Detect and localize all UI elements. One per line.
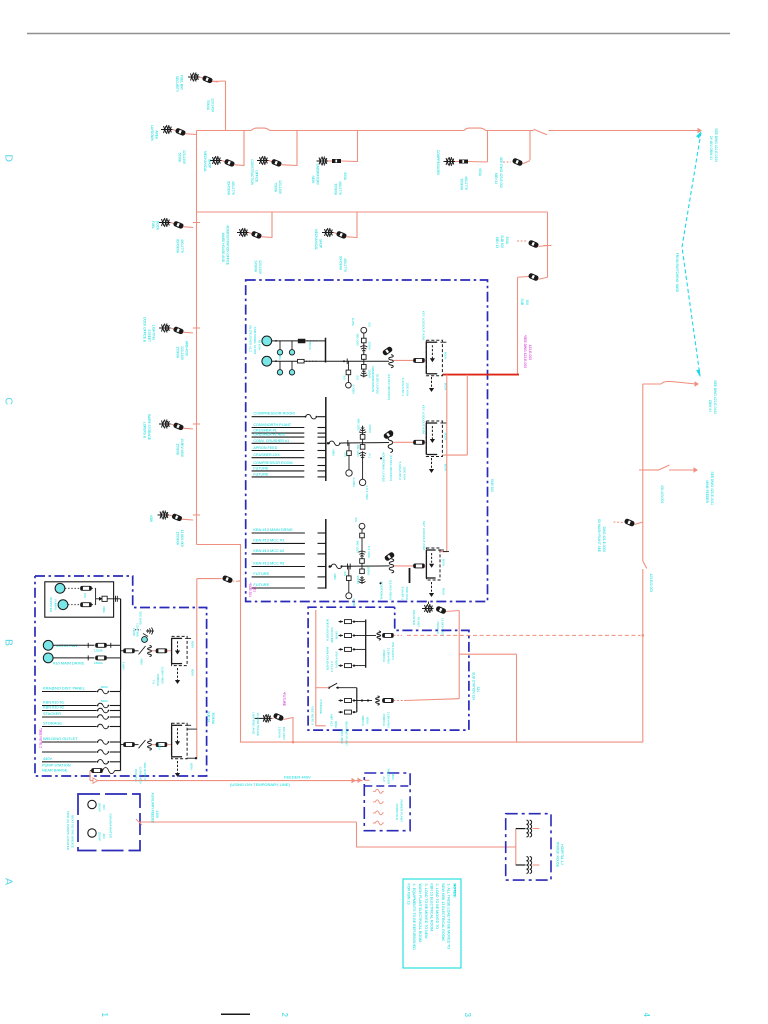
svg-text:600A: 600A <box>101 699 108 703</box>
svg-text:WASH PLANT ELECTRICAL ROOM.: WASH PLANT ELECTRICAL ROOM. <box>418 884 422 943</box>
svg-text:NOTES:: NOTES: <box>453 884 457 898</box>
svg-text:LOKERS &: LOKERS & <box>143 422 147 439</box>
svg-text:300KVA: 300KVA <box>361 715 365 726</box>
svg-text:S/S: S/S <box>368 322 372 327</box>
svg-text:480-277V: 480-277V <box>180 239 184 254</box>
svg-text:C: C <box>3 397 15 405</box>
svg-text:B: B <box>3 639 15 646</box>
svg-text:1500KVA: 1500KVA <box>176 532 180 546</box>
svg-text:AREA: AREA <box>155 130 159 140</box>
svg-text:120-240V: 120-240V <box>182 150 186 165</box>
svg-text:SUB: SUB <box>520 298 524 305</box>
svg-text:423-E-003: 423-E-003 <box>528 345 532 361</box>
svg-text:SEE DWG 421-E-0100: SEE DWG 421-E-0100 <box>713 380 717 414</box>
svg-text:*SUB 301: *SUB 301 <box>248 583 252 598</box>
svg-text:MECHANICAL: MECHANICAL <box>314 229 318 250</box>
svg-text:PLANT: PLANT <box>417 617 421 627</box>
svg-text:NEW: NEW <box>311 176 315 183</box>
svg-text:NEAR BARGE: NEAR BARGE <box>42 768 68 773</box>
svg-text:2# 4KV OBW #1: 2# 4KV OBW #1 <box>709 136 713 160</box>
svg-text:CONV. CRUSHER #1: CONV. CRUSHER #1 <box>253 439 289 443</box>
svg-text:120-240V: 120-240V <box>180 346 184 361</box>
svg-text:120-240V: 120-240V <box>258 260 262 275</box>
svg-text:(PB-4 600V): (PB-4 600V) <box>335 651 339 668</box>
svg-text:30/45KVA: 30/45KVA <box>176 239 180 254</box>
svg-text:300KVA: 300KVA <box>334 184 338 196</box>
svg-text:MAIN CRUSHER: MAIN CRUSHER <box>326 647 330 671</box>
svg-text:1200A: 1200A <box>94 649 103 653</box>
svg-text:ADMINISTRATION OFFICE: ADMINISTRATION OFFICE <box>226 225 230 265</box>
svg-text:1500 KVA: 1500 KVA <box>403 466 407 481</box>
svg-text:S/S: S/S <box>356 375 360 380</box>
svg-text:440V: 440V <box>391 773 395 780</box>
svg-text:KRA@NO DIST. PANEL: KRA@NO DIST. PANEL <box>43 686 86 691</box>
svg-text:75KVA: 75KVA <box>274 182 278 193</box>
svg-text:KBN #13 MCC #2: KBN #13 MCC #2 <box>253 548 284 553</box>
svg-text:SEE DWG 423-E-002: SEE DWG 423-E-002 <box>499 157 503 188</box>
svg-text:600A: 600A <box>343 173 347 181</box>
svg-text:RECEIVER: RECEIVER <box>387 769 391 785</box>
svg-text:KBN #13 MCC #3: KBN #13 MCC #3 <box>253 561 284 566</box>
svg-text:ADDITIONAL LOADS: ADDITIONAL LOADS <box>382 452 386 482</box>
svg-text:4160V: 4160V <box>122 662 126 670</box>
svg-text:P-1 10VA: P-1 10VA <box>367 546 371 558</box>
svg-text:BOOSTER: BOOSTER <box>49 597 53 613</box>
svg-text:1- ALL THESE LOAD TO BE MOVED: 1- ALL THESE LOAD TO BE MOVED TO <box>447 884 451 950</box>
svg-text:440V: 440V <box>43 756 52 761</box>
svg-text:1500KVA: 1500KVA <box>382 650 386 662</box>
svg-text:400-423-003: 400-423-003 <box>660 485 664 503</box>
svg-text:30/45KVA: 30/45KVA <box>227 181 231 196</box>
svg-text:COMPRESSOR ROOM: COMPRESSOR ROOM <box>253 411 294 416</box>
svg-text:AUXILIARY FEEDER: AUXILIARY FEEDER <box>151 793 155 824</box>
svg-text:300KVA: 300KVA <box>460 179 464 191</box>
svg-text:ALP: ALP <box>382 776 386 782</box>
svg-text:KBN #13 MAIN DRIVE: KBN #13 MAIN DRIVE <box>253 527 293 532</box>
svg-text:SEE DWG 423-E-0011: SEE DWG 423-E-0011 <box>710 472 714 506</box>
svg-text:DOCK OFFICE &: DOCK OFFICE & <box>143 317 147 343</box>
svg-text:S/S: S/S <box>354 517 358 522</box>
svg-text:MAIN: MAIN <box>335 632 339 640</box>
svg-text:HOSPITAL 1,2: HOSPITAL 1,2 <box>560 844 564 865</box>
svg-text:600A: 600A <box>444 352 448 360</box>
svg-text:480-120V: 480-120V <box>356 333 360 346</box>
svg-text:600A: 600A <box>442 559 446 567</box>
svg-text:50KVA: 50KVA <box>206 100 210 111</box>
svg-text:CRUSHER: CRUSHER <box>412 610 416 626</box>
svg-text:1530 KVA: 1530 KVA <box>134 769 138 782</box>
svg-text:T-3A 8P-1: T-3A 8P-1 <box>401 586 405 600</box>
svg-text:AMP #13: AMP #13 <box>330 714 334 727</box>
svg-text:300A: 300A <box>333 573 337 580</box>
svg-text:2- LOAD TO BE MOVED TO: 2- LOAD TO BE MOVED TO <box>435 884 439 930</box>
svg-text:STORAGE: STORAGE <box>43 721 62 726</box>
svg-text:(13.8KV-480V): (13.8KV-480V) <box>389 580 393 600</box>
svg-text:3: 3 <box>463 1013 472 1018</box>
svg-text:SHOP: SHOP <box>208 159 212 168</box>
svg-text:600A: 600A <box>191 641 195 648</box>
svg-text:600A: 600A <box>366 717 370 724</box>
svg-text:FUTURE: FUTURE <box>253 571 269 576</box>
svg-text:CRUSHER #1 AUX: CRUSHER #1 AUX <box>253 433 285 437</box>
svg-text:*SEE NOTE 3: *SEE NOTE 3 <box>311 706 315 726</box>
svg-text:FEEDER 440V: FEEDER 440V <box>284 775 311 780</box>
svg-text:LIGHTING AND: LIGHTING AND <box>252 712 256 735</box>
svg-text:KBN: KBN <box>149 515 153 522</box>
svg-text:PUMPS: PUMPS <box>54 599 58 610</box>
svg-text:COMPRESSORS: COMPRESSORS <box>436 150 440 175</box>
svg-text:301: 301 <box>253 586 257 592</box>
svg-text:KBN 14: KBN 14 <box>494 173 498 184</box>
svg-text:480-120V: 480-120V <box>356 444 360 457</box>
svg-text:SUB 300: SUB 300 <box>500 235 504 248</box>
svg-text:ADDITIONAL: ADDITIONAL <box>380 581 384 600</box>
svg-text:400A: 400A <box>140 658 144 665</box>
svg-text:KEY LOCKOUT ASM: KEY LOCKOUT ASM <box>422 311 426 341</box>
svg-text:2: 2 <box>280 1013 289 1018</box>
svg-text:300: 300 <box>525 300 529 306</box>
svg-text:13.8KV-240V: 13.8KV-240V <box>441 618 445 637</box>
svg-text:FUEL: FUEL <box>151 221 155 229</box>
svg-text:SEE DWG 421-E-0100: SEE DWG 421-E-0100 <box>714 128 718 162</box>
svg-text:200HP: 200HP <box>98 803 102 812</box>
svg-text:LAYDOWN: LAYDOWN <box>150 125 154 142</box>
svg-text:400A: 400A <box>442 588 446 596</box>
svg-text:240KVA: 240KVA <box>254 261 258 273</box>
svg-text:480-240V: 480-240V <box>282 727 286 741</box>
svg-text:KEY LOCKOUT ASM: KEY LOCKOUT ASM <box>422 521 426 551</box>
svg-text:SAN PUMP: SAN PUMP <box>330 627 334 643</box>
svg-text:COMPRESSOR ROOM: COMPRESSOR ROOM <box>253 461 292 465</box>
svg-text:13.8KV/4KV: 13.8KV/4KV <box>387 648 391 664</box>
svg-text:*SEE NOTE 2: *SEE NOTE 2 <box>39 728 43 748</box>
svg-text:0-300A: 0-300A <box>352 478 356 487</box>
svg-text:0-300A: 0-300A <box>352 385 356 394</box>
svg-text:15KVA: 15KVA <box>308 341 312 350</box>
svg-text:(PB-6 EXIST): (PB-6 EXIST) <box>391 642 395 660</box>
svg-text:P-1: P-1 <box>368 454 372 459</box>
svg-text:WARE HOUSE AND: WARE HOUSE AND <box>221 233 225 263</box>
svg-text:300VA: 300VA <box>368 342 372 351</box>
svg-text:(13.8KV-480/240V): (13.8KV-480/240V) <box>387 374 391 400</box>
svg-text:DWG 421-E-0000: DWG 421-E-0000 <box>602 527 606 553</box>
svg-text:100VA: 100VA <box>368 370 372 379</box>
svg-text:#10 MAIN DRIVE: #10 MAIN DRIVE <box>53 661 84 666</box>
svg-text:NORTH/SOUTH: NORTH/SOUTH <box>326 619 330 641</box>
svg-text:600A: 600A <box>334 721 338 728</box>
svg-text:120-240V: 120-240V <box>278 180 282 195</box>
svg-text:KEY LOCKOUT ASM: KEY LOCKOUT ASM <box>422 405 426 435</box>
svg-text:480-277V: 480-277V <box>338 181 342 196</box>
svg-text:*SEE DWG 423-E-003: *SEE DWG 423-E-003 <box>523 335 527 368</box>
svg-text:S/S: S/S <box>343 375 347 380</box>
svg-text:600A: 600A <box>101 685 108 689</box>
svg-text:STACKER: STACKER <box>43 711 61 716</box>
svg-text:3-P 4-160V: 3-P 4-160V <box>365 485 369 500</box>
svg-text:600A: 600A <box>190 763 194 770</box>
svg-text:30A: 30A <box>278 355 282 360</box>
svg-text:2 #1,2,3: 2 #1,2,3 <box>330 661 334 672</box>
svg-text:SUB STATION 324: SUB STATION 324 <box>472 672 476 700</box>
svg-text:WARE STORAGE: WARE STORAGE <box>147 414 151 440</box>
svg-text:150KVA: 150KVA <box>278 727 282 739</box>
svg-text:300KVA: 300KVA <box>211 713 215 725</box>
svg-text:ARB-400V: ARB-400V <box>185 341 189 357</box>
svg-text:SECURITY: SECURITY <box>175 76 179 93</box>
svg-text:400A: 400A <box>158 743 162 750</box>
svg-text:1500KVA: 1500KVA <box>156 674 160 686</box>
svg-text:85 KVA: 85 KVA <box>258 340 262 351</box>
svg-text:S/S: S/S <box>344 452 348 457</box>
svg-text:KBN #10 #2: KBN #10 #2 <box>43 705 64 710</box>
svg-text:*FUTURE: *FUTURE <box>282 692 286 706</box>
svg-text:600A: 600A <box>332 449 336 456</box>
svg-text:CBW #1: CBW #1 <box>708 400 712 412</box>
svg-text:SEE NOTE 2: SEE NOTE 2 <box>143 762 147 780</box>
svg-text:BLDG LOADS: BLDG LOADS <box>376 374 380 394</box>
svg-text:150KVA: 150KVA <box>176 347 180 359</box>
svg-text:MINE FEEDER: MINE FEEDER <box>705 480 709 503</box>
svg-text:480-277V: 480-277V <box>343 258 347 273</box>
svg-text:CRUSHER-1XX: CRUSHER-1XX <box>253 453 280 457</box>
svg-text:GOVANA WATER: GOVANA WATER <box>109 813 113 838</box>
svg-text:FUTURE: FUTURE <box>253 466 268 470</box>
svg-text:SUB 300: SUB 300 <box>490 479 494 492</box>
svg-text:TWO (2) PUMPS LOCATED: TWO (2) PUMPS LOCATED <box>66 811 70 851</box>
svg-text:KBN 13 ELECTRICAL ROOM.: KBN 13 ELECTRICAL ROOM. <box>430 884 434 933</box>
svg-text:1500 KVA: 1500 KVA <box>405 586 409 601</box>
svg-text:13.8KV-4KV: 13.8KV-4KV <box>180 530 184 548</box>
svg-text:600A: 600A <box>102 606 106 613</box>
svg-text:ADMINISTRATION: ADMINISTRATION <box>371 366 375 392</box>
svg-text:FROM OLD: FROM OLD <box>395 804 399 821</box>
svg-text:WASHING PLANT: WASHING PLANT <box>345 721 349 746</box>
svg-text:FOR KBN 13.: FOR KBN 13. <box>407 884 411 906</box>
svg-text:3- LOAD TO BE MOVED TO NEW: 3- LOAD TO BE MOVED TO NEW <box>424 884 428 940</box>
svg-text:300VA: 300VA <box>356 576 360 585</box>
svg-text:1: 1 <box>100 1013 109 1018</box>
svg-text:13.8KV-480V: 13.8KV-480V <box>161 666 165 684</box>
svg-text:1500KVA: 1500KVA <box>382 714 386 726</box>
svg-text:300A: 300A <box>505 237 509 245</box>
svg-text:FROM SWITCHING YARD: FROM SWITCHING YARD <box>675 253 679 293</box>
svg-text:S/S: S/S <box>343 571 347 576</box>
svg-text:(8) CRUSHER #1,2: (8) CRUSHER #1,2 <box>249 325 253 352</box>
svg-text:WELDING OUTLET: WELDING OUTLET <box>43 736 78 741</box>
svg-text:LABORATORY: LABORATORY <box>316 164 320 186</box>
svg-text:480-120V: 480-120V <box>356 540 360 553</box>
svg-text:LIGHTING: LIGHTING <box>152 325 156 341</box>
svg-text:423-E22-003: 423-E22-003 <box>649 574 653 593</box>
svg-text:SUB 24: SUB 24 <box>207 711 211 722</box>
svg-text:440V: 440V <box>155 811 159 819</box>
svg-text:POWER PLANT: POWER PLANT <box>400 799 404 822</box>
svg-text:480-277V: 480-277V <box>464 176 468 191</box>
svg-text:4KV: 4KV <box>102 833 106 839</box>
svg-text:324: 324 <box>476 686 480 692</box>
svg-text:STREET: STREET <box>147 329 151 342</box>
svg-text:13.8KV-480V: 13.8KV-480V <box>180 438 184 458</box>
svg-text:480-277V: 480-277V <box>231 181 235 196</box>
svg-text:FUEL BAY: FUEL BAY <box>180 75 184 91</box>
svg-text:13.8KV-480V: 13.8KV-480V <box>139 766 143 784</box>
svg-text:TRANSF. HOUSE: TRANSF. HOUSE <box>556 841 560 867</box>
svg-text:200HP: 200HP <box>98 832 102 841</box>
svg-text:A: A <box>3 878 15 885</box>
svg-text:D: D <box>3 154 15 162</box>
svg-text:(13.8KV-480/240V): (13.8KV-480/240V) <box>389 455 393 481</box>
svg-text:STORAGE: STORAGE <box>319 699 323 714</box>
svg-text:DOCK: DOCK <box>156 221 160 231</box>
svg-text:KBN 13: KBN 13 <box>495 237 499 248</box>
svg-text:CONV/NORTH PLANT: CONV/NORTH PLANT <box>253 423 291 427</box>
svg-text:4KV: 4KV <box>102 804 106 810</box>
svg-text:KBN #13 MCC #1: KBN #13 MCC #1 <box>253 537 284 542</box>
svg-text:100VA: 100VA <box>367 567 371 576</box>
svg-text:NEW KBN 13 ELECTRICAL ROOM.: NEW KBN 13 ELECTRICAL ROOM. <box>441 884 445 942</box>
svg-text:T-6: T-6 <box>152 680 156 685</box>
svg-text:120-240V: 120-240V <box>211 98 215 113</box>
svg-text:15A: 15A <box>83 593 87 598</box>
svg-text:SHOP: SHOP <box>319 239 323 248</box>
svg-text:FUTURE: FUTURE <box>253 472 268 476</box>
svg-text:OFFICE: OFFICE <box>255 170 259 182</box>
svg-text:KRA 480V: KRA 480V <box>340 730 344 744</box>
svg-text:(USING O/H TEMPORARY LINE): (USING O/H TEMPORARY LINE) <box>230 782 290 787</box>
svg-text:GUARD HOUSE: GUARD HOUSE <box>256 713 260 736</box>
svg-text:T-3(4)-A 8P-1: T-3(4)-A 8P-1 <box>401 377 405 396</box>
svg-text:CONSTRUCTION: CONSTRUCTION <box>250 159 254 185</box>
svg-text:1500A: 1500A <box>94 661 103 665</box>
svg-text:T-3(4)-B 8P-2: T-3(4)-B 8P-2 <box>398 461 402 480</box>
svg-text:30/45KVA: 30/45KVA <box>339 256 343 271</box>
svg-text:600A: 600A <box>478 169 482 177</box>
svg-text:13.8KV/4KV: 13.8KV/4KV <box>387 712 391 728</box>
svg-text:D-25A: D-25A <box>351 318 355 326</box>
svg-text:480-120V: 480-120V <box>357 418 361 431</box>
svg-text:300VA: 300VA <box>368 425 372 434</box>
svg-text:APRON FEED: APRON FEED <box>253 446 277 450</box>
svg-text:4: 4 <box>642 1013 651 1018</box>
svg-text:1500KVA: 1500KVA <box>436 621 440 635</box>
svg-text:MECHANICAL: MECHANICAL <box>203 151 207 172</box>
svg-text:600A: 600A <box>191 669 195 676</box>
svg-text:500VA: 500VA <box>178 153 182 163</box>
svg-text:1500 KVA: 1500 KVA <box>406 382 410 397</box>
svg-text:NEXT TO THE BRIDGE: NEXT TO THE BRIDGE <box>71 815 75 848</box>
svg-text:XFMR: XFMR <box>132 628 136 636</box>
svg-text:OX WASH PLANT SEE: OX WASH PLANT SEE <box>597 519 601 552</box>
svg-text:ASM PANEL #2 RM: ASM PANEL #2 RM <box>253 327 257 355</box>
svg-text:SEE DWG: SEE DWG <box>139 611 143 625</box>
svg-text:4- EQUIPMENTS TO BE REFURBISHE: 4- EQUIPMENTS TO BE REFURBISHED <box>412 884 416 951</box>
svg-text:150KVA: 150KVA <box>176 444 180 456</box>
